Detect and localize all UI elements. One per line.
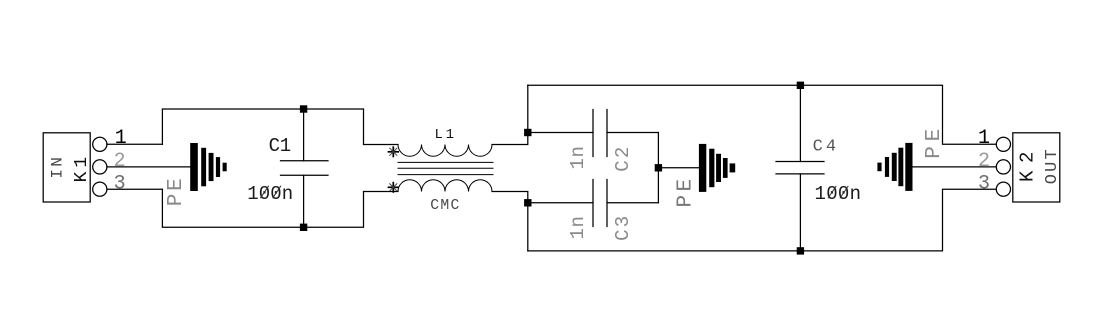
junction at C1 top <box>300 105 307 112</box>
wire net N-in (pin3 down, bottom rail, up to choke) <box>162 189 303 227</box>
capacitor C3 <box>593 180 607 227</box>
wire top rail <box>528 85 997 144</box>
wire <box>304 109 398 145</box>
svg-text:1n: 1n <box>567 216 589 240</box>
label OUT (K2 value) <box>1043 149 1062 184</box>
junction at C4 bottom <box>797 247 804 254</box>
phase dot asterisk top winding <box>388 146 399 157</box>
svg-text:2: 2 <box>114 150 126 173</box>
label K2 (name) <box>1016 152 1038 183</box>
svg-text:3: 3 <box>978 172 990 195</box>
wire C2 branch <box>528 132 593 134</box>
common-mode choke L1 bottom winding <box>398 180 492 192</box>
wire K1 pin3 to node <box>107 188 162 190</box>
wire PE to K2 pin2 <box>913 166 997 168</box>
capacitor C1 <box>281 109 329 227</box>
phase dot asterisk bottom winding <box>388 182 399 193</box>
svg-text:100n: 100n <box>815 183 862 205</box>
value 1n (C3) <box>567 216 589 240</box>
wire C3 branch <box>528 202 593 204</box>
capacitor C2 <box>593 110 607 157</box>
svg-text:100n: 100n <box>247 183 293 205</box>
wire choke top out <box>492 85 528 144</box>
capacitor C4 <box>776 85 824 251</box>
connector K1 <box>43 133 107 202</box>
slash of second zero (C1 value) <box>273 186 281 199</box>
svg-text:CMC: CMC <box>430 198 459 214</box>
choke core lines <box>398 162 493 174</box>
svg-text:2: 2 <box>978 150 990 173</box>
label PE (right ground) <box>923 129 946 159</box>
label C2 <box>612 147 634 172</box>
svg-text:1: 1 <box>115 127 127 150</box>
junction at C1 bottom <box>300 224 307 231</box>
slash of first zero (C1 value) <box>260 186 269 199</box>
value 1n (C2) <box>567 146 589 170</box>
svg-text:1: 1 <box>978 127 990 150</box>
junction at C2 branch <box>524 129 531 136</box>
wire choke bottom out <box>492 192 528 251</box>
label IN (K1 value) <box>49 157 67 179</box>
wire K1 pin1 to node <box>107 143 162 145</box>
label K1 (name) <box>72 157 92 183</box>
svg-text:C1: C1 <box>269 135 292 157</box>
slash of second zero (C4 value) <box>840 186 848 199</box>
wire <box>607 132 658 134</box>
junction at PE tap <box>655 164 662 171</box>
slash of first zero (C4 value) <box>828 186 836 199</box>
junction at C3 branch <box>524 199 531 206</box>
ground PE3 symbol (mirrored) <box>877 143 912 191</box>
wire C2/C3 common to PE <box>658 133 699 203</box>
connector K2 <box>996 133 1060 202</box>
ground PE1 symbol <box>190 143 227 191</box>
junction at C4 top <box>797 82 804 89</box>
svg-text:OUT: OUT <box>1043 149 1062 184</box>
label PE (left ground) <box>165 178 188 206</box>
svg-text:1n: 1n <box>567 146 589 170</box>
label PE (middle ground) <box>674 179 697 208</box>
wire net L1-in (pin1 up, top rail, down to choke) <box>162 109 303 144</box>
wire K1 pin2 to PE <box>107 166 190 168</box>
common-mode choke L1 top winding <box>398 145 492 157</box>
wire <box>304 192 398 228</box>
label C3 <box>612 216 634 241</box>
wire <box>607 202 658 204</box>
ground PE2 symbol <box>699 144 735 192</box>
svg-text:3: 3 <box>114 172 126 195</box>
wire bottom rail <box>528 189 997 251</box>
